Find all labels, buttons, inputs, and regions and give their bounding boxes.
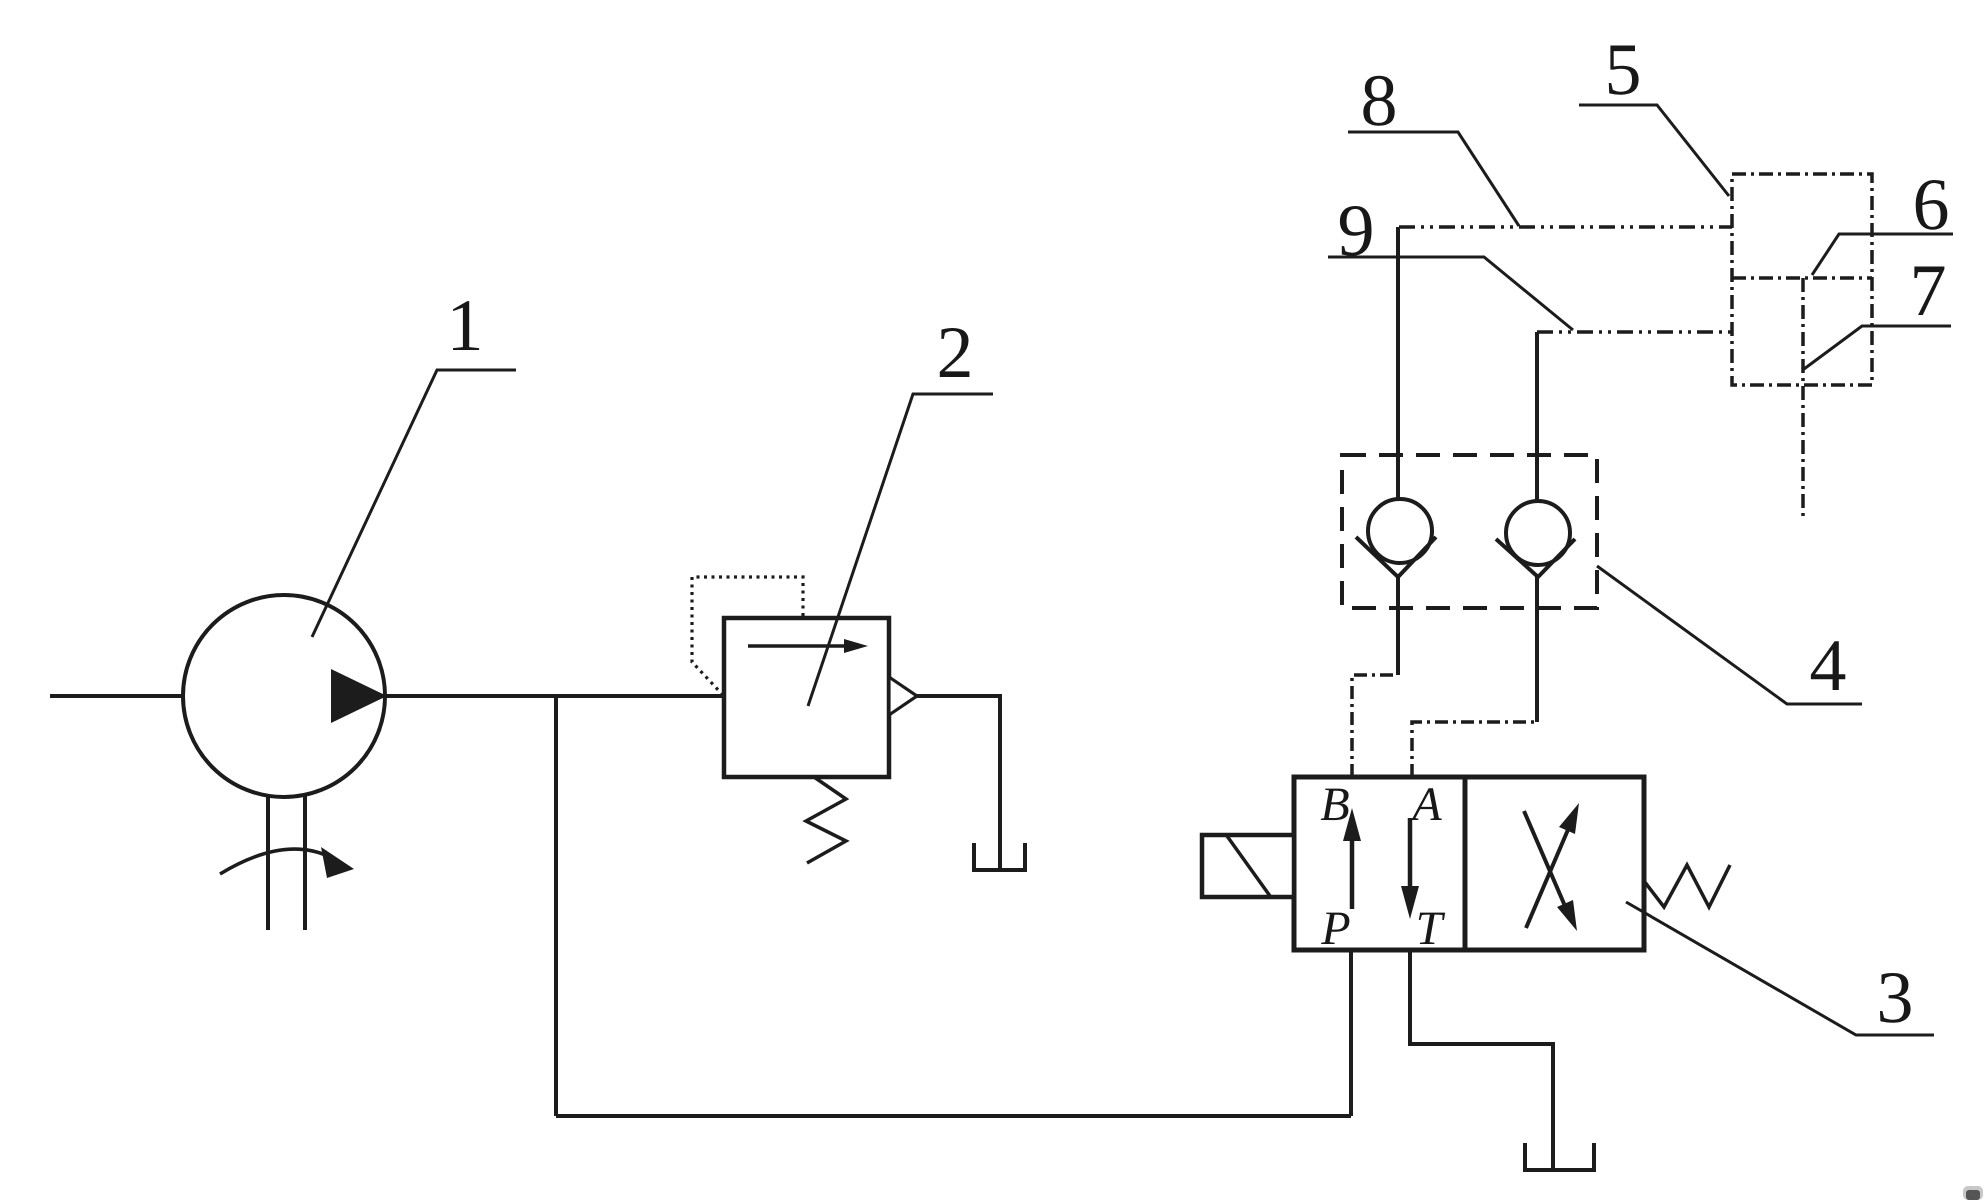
leader line for label 7 [1804, 326, 1951, 369]
wire: relief valve outlet to tank [917, 696, 1000, 868]
box 5: inner vertical dash-dot line [1801, 278, 1805, 518]
label P [1321, 913, 1349, 944]
wire: dash-dot line 9 [1537, 330, 1732, 334]
wire: vertical below right check valve [1535, 577, 1539, 722]
wire: dash-dot jog from left check valve to B port [1352, 675, 1398, 777]
directional valve 3: right square [1465, 777, 1644, 950]
directional valve 3: A-to-T down arrow [1408, 818, 1413, 888]
label B [1321, 789, 1349, 821]
check valve left: circle [1368, 499, 1432, 563]
leader line for label 6 [1812, 234, 1953, 275]
wire: pump outlet main line [384, 694, 724, 698]
pump 1: rotation arrowhead [321, 847, 354, 878]
leader line for label 4 [1597, 566, 1862, 704]
tank symbol under directional valve [1525, 1143, 1594, 1170]
label T [1419, 913, 1445, 944]
box 5: internal divider [1732, 276, 1872, 280]
label A [1410, 788, 1442, 820]
wire: P port line up to valve [1349, 949, 1353, 1116]
scan artifact bottom-right corner [1963, 1186, 1983, 1200]
label 4 [1811, 641, 1845, 690]
wire: dash-dot line 8 [1399, 225, 1732, 229]
relief valve 2: internal flow arrow [748, 644, 850, 648]
label 1 [453, 301, 479, 350]
directional valve 3: left square [1294, 777, 1465, 950]
wire: T port down [1410, 949, 1553, 1168]
relief valve 2: body box [724, 618, 889, 777]
label 5 [1609, 46, 1639, 95]
label 7 [1914, 267, 1944, 316]
label 3 [1880, 973, 1911, 1023]
check valve left: seat V [1356, 537, 1436, 577]
directional valve 3: crossed arrow 1 (to top right) [1526, 825, 1570, 928]
directional valve 3: P-to-B up arrow [1350, 836, 1355, 909]
wire: long bottom return line [556, 1114, 1351, 1118]
leader line for label 8 [1348, 132, 1519, 226]
label 2 [940, 328, 970, 377]
check valve right: circle [1506, 501, 1570, 565]
directional valve 3: return spring [1644, 865, 1730, 907]
relief valve 2: dotted pilot line [692, 577, 803, 694]
leader line for label 2 [808, 394, 993, 706]
wire: pump suction line [50, 694, 186, 698]
directional valve 3: crossed arrow 2 (to bottom right) [1524, 811, 1568, 913]
relief valve 2: outlet open triangle [889, 677, 917, 715]
wire: vertical above left check valve [1396, 227, 1400, 499]
leader line for label 5 [1579, 105, 1729, 196]
box 5: dash-dot enclosure outer [1732, 174, 1872, 385]
relief valve 2: spring below [806, 777, 846, 863]
leader line for label 9 [1328, 257, 1573, 330]
wire: vertical below left check valve [1396, 577, 1400, 675]
wire: branch vertical down from main line [554, 696, 558, 1116]
check valve right: seat V [1496, 539, 1575, 577]
leader line for label 3 [1626, 902, 1934, 1035]
check valve block 4: dashed enclosure [1342, 455, 1597, 608]
pump 1: drive shaft [266, 795, 270, 930]
directional valve 3: solenoid diagonal [1227, 836, 1270, 896]
pump 1: rotation arc [220, 849, 330, 874]
label 9 [1340, 206, 1372, 256]
label 6 [1916, 180, 1948, 230]
label 8 [1363, 76, 1394, 126]
leader line for label 1 [312, 370, 516, 637]
directional valve 3: solenoid box [1202, 835, 1294, 897]
pump 1: circle [183, 595, 385, 797]
wire: vertical above right check valve [1535, 332, 1539, 501]
wire: dash-dot jog from right check valve to A port [1412, 722, 1537, 777]
tank symbol under relief valve [974, 843, 1025, 870]
pump 1: outlet triangle [331, 669, 387, 723]
